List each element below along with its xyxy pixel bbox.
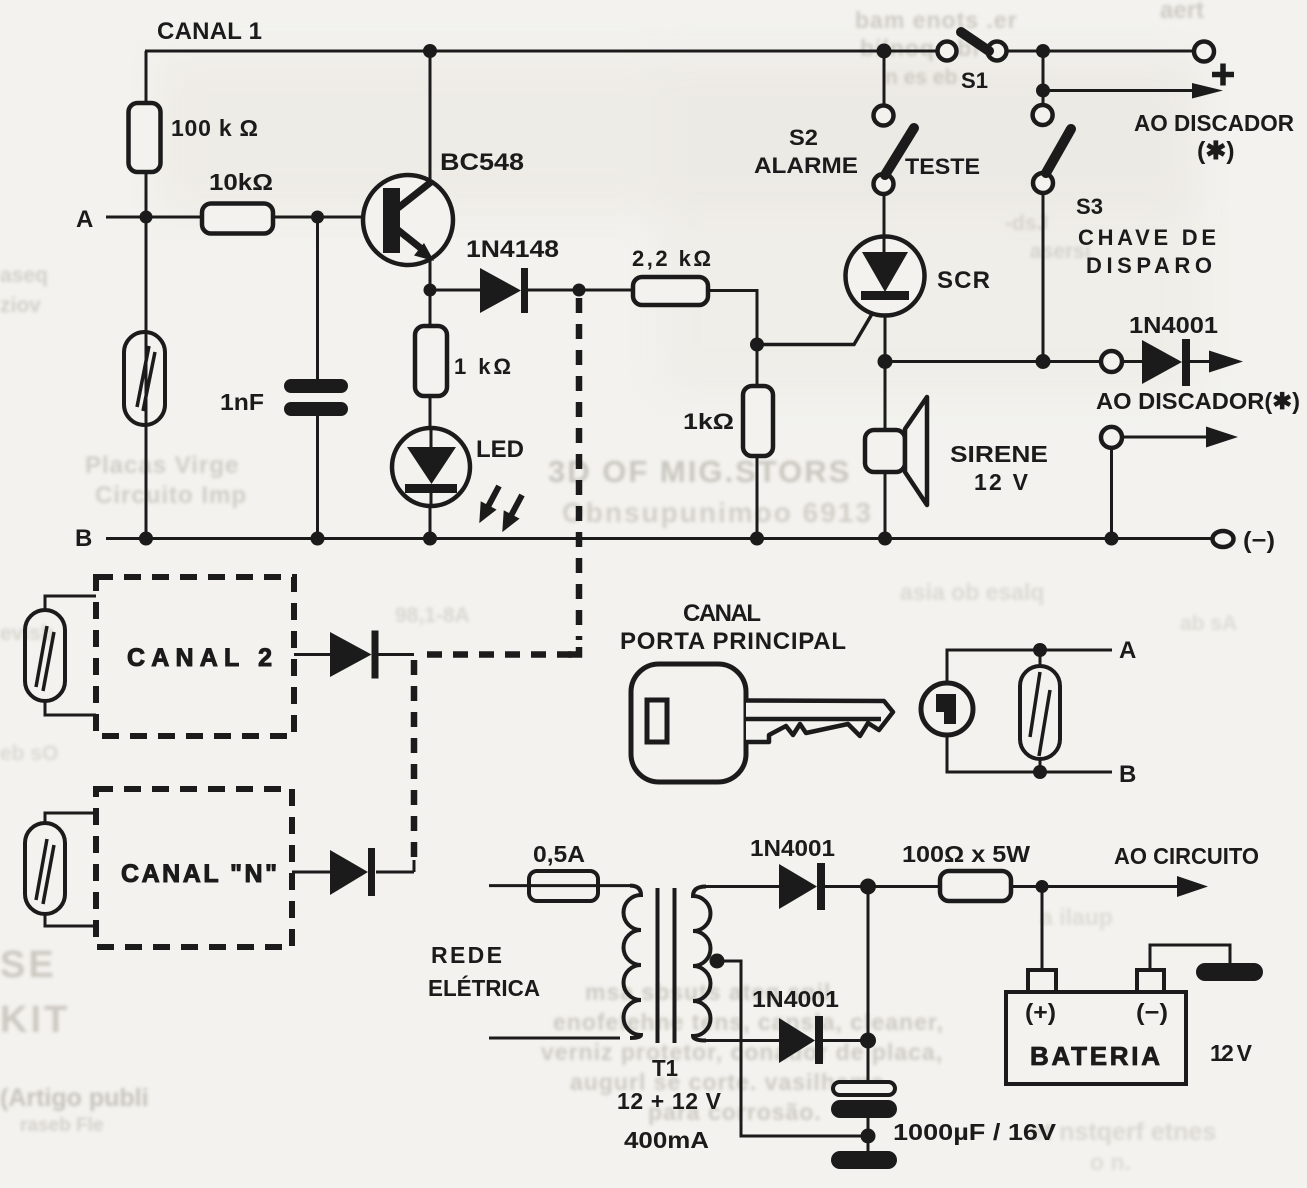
svg-text:o n.: o n. [1090, 1149, 1131, 1175]
svg-text:(−): (−) [1136, 999, 1168, 1025]
svg-text:A: A [1119, 637, 1136, 664]
svg-text:PORTA PRINCIPAL: PORTA PRINCIPAL [620, 628, 846, 655]
svg-text:(Artigo publi: (Artigo publi [0, 1084, 149, 1112]
svg-text:AO CIRCUITO: AO CIRCUITO [1114, 843, 1259, 869]
svg-text:bam enots .er: bam enots .er [855, 7, 1018, 33]
svg-text:a ilaup: a ilaup [1040, 904, 1113, 930]
svg-text:S3: S3 [1076, 194, 1103, 219]
svg-text:0,5A: 0,5A [533, 841, 585, 867]
svg-text:1nF: 1nF [220, 389, 264, 415]
svg-text:aert: aert [1160, 0, 1204, 24]
svg-text:ab sA: ab sA [1180, 612, 1237, 635]
svg-text:CANAL: CANAL [683, 600, 761, 627]
svg-text:eb sO: eb sO [0, 742, 58, 765]
svg-text:1N4001: 1N4001 [752, 986, 839, 1012]
svg-text:Circuito Imp: Circuito Imp [95, 482, 247, 509]
svg-text:B: B [75, 525, 92, 552]
svg-text:ziov: ziov [0, 294, 41, 317]
svg-text:et nstqerf etnes: et nstqerf etnes [1030, 1118, 1216, 1146]
svg-text:LED: LED [476, 436, 524, 463]
svg-text:(+): (+) [1025, 999, 1056, 1025]
svg-text:ELÉTRICA: ELÉTRICA [428, 974, 540, 1001]
svg-text:n es eb: n es eb [885, 66, 957, 89]
svg-text:400mA: 400mA [624, 1127, 709, 1153]
svg-text:asia ob esalq: asia ob esalq [900, 579, 1044, 605]
svg-text:S1: S1 [961, 68, 988, 93]
svg-text:AO DISCADOR(✱): AO DISCADOR(✱) [1096, 388, 1300, 414]
svg-text:SIRENE: SIRENE [950, 441, 1048, 467]
svg-text:(−): (−) [1243, 527, 1275, 553]
svg-text:BC548: BC548 [440, 149, 524, 176]
svg-text:100Ω x 5W: 100Ω x 5W [902, 841, 1030, 867]
svg-text:12 + 12 V: 12 + 12 V [617, 1088, 722, 1114]
svg-text:B: B [1119, 761, 1136, 788]
svg-text:1N4001: 1N4001 [750, 835, 835, 861]
svg-text:T1: T1 [652, 1055, 678, 1081]
svg-text:CHAVE DE: CHAVE DE [1078, 225, 1216, 250]
svg-text:1kΩ: 1kΩ [683, 409, 734, 434]
svg-text:S2: S2 [789, 125, 818, 150]
svg-text:10kΩ: 10kΩ [209, 169, 273, 195]
svg-text:12 V: 12 V [1210, 1040, 1253, 1066]
svg-text:aseq: aseq [0, 264, 48, 287]
svg-text:1 kΩ: 1 kΩ [454, 354, 511, 379]
svg-text:Placas Virge: Placas Virge [85, 452, 239, 479]
svg-text:enofelehne tens, cansla, clean: enofelehne tens, cansla, cleaner, [553, 1009, 944, 1035]
svg-text:CANAL 1: CANAL 1 [157, 18, 262, 45]
svg-text:1N4148: 1N4148 [466, 236, 559, 263]
svg-text:2,2 kΩ: 2,2 kΩ [632, 246, 711, 271]
svg-text:raseb Fle: raseb Fle [20, 1115, 103, 1136]
svg-text:(✱): (✱) [1197, 137, 1235, 165]
svg-text:1000µF / 16V: 1000µF / 16V [893, 1119, 1057, 1145]
svg-text:CANAL "N": CANAL "N" [121, 860, 277, 888]
svg-text:100 k Ω: 100 k Ω [171, 115, 258, 141]
svg-text:Obnsupunimoo 6913: Obnsupunimoo 6913 [562, 497, 873, 528]
svg-text:12 V: 12 V [974, 469, 1029, 495]
svg-text:1N4001: 1N4001 [1129, 312, 1218, 338]
svg-text:SE: SE [0, 944, 57, 986]
svg-text:AO DISCADOR: AO DISCADOR [1134, 110, 1294, 136]
svg-text:ALARME: ALARME [754, 153, 858, 178]
svg-text:A: A [76, 206, 93, 233]
svg-text:3D OF MIG.STORS: 3D OF MIG.STORS [548, 454, 851, 489]
svg-text:SCR: SCR [937, 267, 990, 294]
svg-text:TESTE: TESTE [905, 154, 980, 179]
svg-text:KIT: KIT [0, 999, 70, 1041]
svg-text:98,1-8A: 98,1-8A [395, 604, 470, 627]
